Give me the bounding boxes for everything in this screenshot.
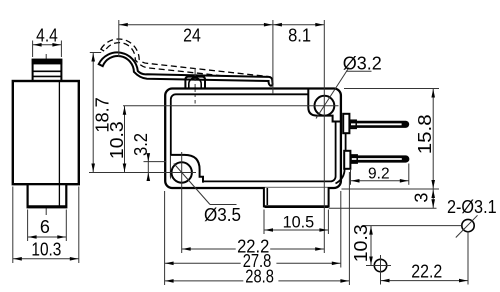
dimension 10.3 vertical	[124, 106, 126, 173]
dimension 22.2	[182, 248, 325, 250]
terminal 1 base	[343, 114, 349, 133]
lever dashed free position	[99, 37, 275, 85]
switch body side view	[13, 81, 79, 184]
hole A centerline vertical	[467, 231, 469, 285]
terminal 1 blade	[350, 121, 409, 128]
mounting hole centerline vertical	[181, 152, 183, 253]
svg-text:9.2: 9.2	[368, 166, 390, 183]
mounting hole centerline horizontal	[89, 172, 196, 174]
svg-text:10.3: 10.3	[31, 240, 61, 260]
svg-text:8.1: 8.1	[288, 26, 311, 46]
case seam line	[58, 82, 60, 183]
svg-text:24: 24	[183, 25, 201, 45]
centerline side view	[45, 54, 47, 215]
dimension 27.8	[164, 191, 166, 285]
hole B bottom left	[374, 259, 386, 271]
terminal rib edge	[345, 116, 347, 151]
pivot hole centerline horizontal	[123, 105, 339, 107]
dimension 10.3 holes	[370, 226, 372, 266]
dimension 6	[27, 210, 29, 242]
pivot corner boss	[308, 89, 341, 122]
dimension 10.5	[263, 210, 265, 235]
case outline	[165, 89, 341, 189]
button centerline	[194, 68, 196, 104]
dimension 18.7	[90, 52, 101, 54]
dimension 3	[329, 207, 437, 209]
svg-text:28.8: 28.8	[245, 267, 274, 287]
dimension 4.4	[32, 41, 34, 58]
svg-text:10.3: 10.3	[351, 224, 371, 262]
dimension 22.2 holes	[381, 280, 469, 282]
pivot hole	[315, 96, 335, 116]
svg-text:22.2: 22.2	[411, 262, 442, 282]
hole B centerline horizontal	[370, 265, 391, 267]
terminal 2 base	[344, 151, 350, 169]
lever solid position	[99, 52, 273, 85]
mounting hole	[172, 162, 192, 182]
dimension 10.3 side view	[12, 187, 14, 264]
svg-text:3: 3	[412, 193, 432, 203]
svg-text:Ø3.5: Ø3.5	[204, 205, 241, 225]
hole A centerline horizontal	[363, 225, 462, 227]
bottom terminal protrusion	[264, 188, 329, 207]
dimension 15.8	[344, 88, 439, 90]
label 2-D3.1 leader	[456, 215, 478, 237]
actuator button	[185, 77, 205, 89]
svg-text:2-Ø3.1: 2-Ø3.1	[447, 197, 497, 217]
svg-text:10.5: 10.5	[283, 213, 315, 231]
top dimension line 24 / 8.1	[119, 24, 324, 26]
dimension 3.2	[144, 161, 167, 163]
svg-text:3.2: 3.2	[131, 133, 151, 156]
hole B centerline vertical	[380, 255, 382, 285]
dimension 28.8	[348, 172, 350, 285]
svg-text:10.3: 10.3	[107, 121, 127, 159]
case inner wall	[171, 94, 336, 181]
label D3.5 leader	[174, 164, 210, 205]
plunger side view	[33, 60, 62, 81]
dimension 9.2	[350, 169, 352, 185]
svg-text:6: 6	[40, 217, 50, 237]
terminal 2 blade	[351, 155, 409, 162]
bottom boss side view	[28, 184, 67, 207]
mounting boss bottom-left	[171, 155, 203, 183]
svg-text:4.4: 4.4	[36, 26, 58, 46]
svg-text:15.8: 15.8	[415, 114, 435, 154]
label D3.2 leader	[316, 68, 349, 119]
hole A top right	[462, 219, 474, 231]
svg-text:Ø3.2: Ø3.2	[343, 54, 382, 74]
